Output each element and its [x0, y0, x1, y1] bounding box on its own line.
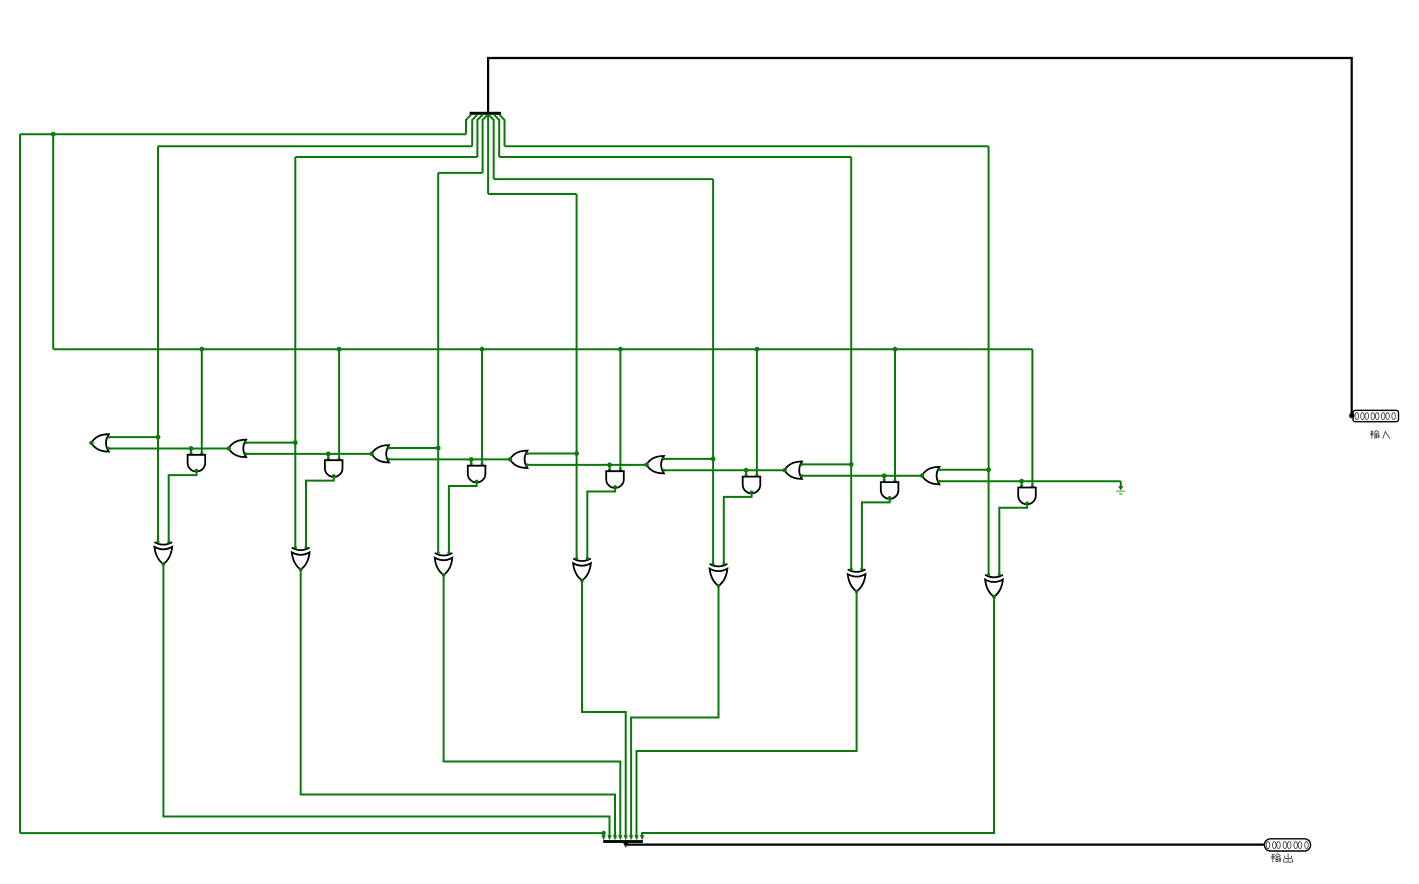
and-gate AND1 (facing down): [188, 455, 206, 473]
wire: XOR6 output down to splitter SP2 leg 6: [637, 591, 857, 835]
wire: OR6 top input to node at x=851: [802, 462, 854, 467]
wire: OR6 bottom input chain (from OR7 output): [802, 475, 922, 477]
wire net bit4 vertical x=577 down to XOR4: [576, 194, 578, 559]
or-gate OR6 (facing left): [782, 462, 803, 479]
wire: XOR4 output down to splitter SP2 leg 4: [582, 581, 626, 836]
or-gate OR4 (facing left): [508, 451, 529, 468]
svg-text:2: 2: [616, 836, 618, 840]
svg-text:5: 5: [632, 836, 634, 840]
wire: OR7 bottom input chain (from ground): [939, 480, 1121, 482]
node J: AND7 left input tap: [1019, 479, 1024, 487]
wire: OR4 top input to node at x=577: [527, 451, 579, 456]
or-gate OR7 (facing left): [920, 467, 941, 484]
wire net bit4: splitter SP1 leg 4: [488, 114, 576, 194]
wire net bit3: splitter SP1 leg 3: [438, 114, 488, 172]
wire net bit2: splitter SP1 leg 2: [295, 114, 483, 157]
wire: OR1 top input to node at x=158: [109, 435, 161, 440]
wire: rail drop to AND5 right input: [755, 347, 760, 477]
wire: OR5 top input to node at x=713: [664, 457, 716, 462]
or-gate OR5 (facing left): [644, 456, 665, 473]
wire: OR5 bottom input chain (from OR6 output): [664, 469, 785, 471]
and-gate AND7 (facing down): [1018, 488, 1036, 506]
or-gate OR3 (facing left): [369, 445, 390, 462]
label 输入 (input): [1371, 430, 1390, 438]
wire: OR7 top input to node at x=989: [939, 467, 991, 472]
and-gate AND3 (facing down): [468, 466, 486, 484]
wire: OR4 bottom input chain (from OR5 output): [527, 464, 646, 466]
wire: rail drop to AND4 right input: [618, 347, 623, 471]
wire net bit2 vertical x=295 down to XOR2: [294, 157, 296, 548]
wire: rail drop to AND3 right input: [480, 347, 485, 466]
svg-text:7: 7: [643, 836, 645, 840]
wire: XOR7 output down to splitter SP2 leg 7: [642, 597, 994, 836]
svg-text:6: 6: [637, 836, 639, 840]
wire net bit7 vertical x=989 down to XOR7: [988, 146, 990, 575]
svg-text:4: 4: [626, 836, 628, 840]
xor-gate XOR1 (facing down): [154, 540, 172, 566]
wire net bit3 vertical x=438 down to XOR3: [437, 173, 439, 554]
wire: AND1 output to XOR1 right input: [169, 471, 197, 543]
svg-text:1: 1: [610, 836, 612, 840]
wire net bit5 vertical x=713 down to XOR5: [712, 179, 714, 564]
wire: rail drop to AND6 right input: [893, 347, 898, 482]
wire: XOR1 output down to splitter SP2 leg 1: [163, 564, 609, 836]
xor-gate XOR6 (facing down): [848, 568, 866, 594]
wire net bit0: splitter SP1 leg 0: [20, 114, 471, 134]
wire net bit6 vertical x=851 down to XOR6: [850, 157, 852, 570]
wire: OR2 bottom input chain (from OR3 output): [246, 453, 372, 455]
splitter SP2 (8x1 fan-in) bar and leg arrowheads: [601, 835, 644, 843]
wire: AND5 output to XOR5 right input: [724, 492, 752, 564]
node J: AND3 left input tap: [469, 457, 474, 466]
wire: AND3 output to XOR3 right input: [449, 481, 477, 553]
wire net bit1: splitter SP1 leg 1: [158, 114, 478, 146]
wire net bit7: splitter SP1 leg 7: [499, 114, 988, 146]
wire: AND4 output to XOR4 right input: [587, 487, 615, 559]
xor-gate XOR7 (facing down): [985, 573, 1003, 599]
wire: AND2 output to XOR2 right input: [306, 476, 334, 548]
wire net bit6: splitter SP1 leg 6: [494, 114, 851, 157]
node J0 on bit0 wire at (53,134): [51, 132, 56, 137]
node J: AND2 left input tap: [326, 452, 331, 461]
wire black: splitter SP2 to output pin: [626, 843, 1265, 845]
wire: OR3 bottom input chain (from OR4 output): [389, 458, 510, 460]
wire common rail: (53,134) down to y=349 and across: [53, 134, 1032, 486]
label 输出 (output): [1272, 853, 1293, 862]
wire net bit0: left rail x=20 down to bottom: [20, 134, 606, 836]
wire net bit1 vertical x=158 down to XOR1: [157, 146, 159, 542]
node: AND7 right input: [1031, 484, 1034, 487]
splitter SP2 black stub arrow: [623, 843, 629, 848]
ground / constant-0 symbol: [1116, 481, 1125, 494]
wire: rail drop to AND2 right input: [337, 347, 342, 460]
wire: OR3 top input to node at x=438: [389, 446, 441, 451]
or-gate OR2 (facing left): [227, 440, 248, 457]
input pin (8-bit) 输入: [1349, 410, 1398, 421]
and-gate AND6 (facing down): [881, 482, 899, 500]
wire: rail drop to AND1 right input: [199, 347, 204, 455]
output pin (8-bit) 输出: [1264, 839, 1310, 851]
wire: OR1 bottom input chain (from OR2 output): [109, 448, 229, 450]
xor-gate XOR5 (facing down): [710, 562, 728, 588]
wire: OR2 top input to node at x=295: [246, 440, 298, 445]
wire: AND6 output to XOR6 right input: [862, 498, 890, 570]
splitter SP2 tiny bit labels: [604, 836, 645, 840]
wire: AND7 output to XOR7 right input: [999, 503, 1027, 575]
wire black: input pin up/left to splitter: [487, 58, 1353, 416]
and-gate AND4 (facing down): [606, 471, 624, 489]
or-gate OR1 (facing left): [89, 434, 110, 451]
xor-gate XOR4 (facing down): [573, 557, 591, 583]
node J: AND1 left input tap: [189, 446, 194, 455]
xor-gate XOR3 (facing down): [435, 551, 453, 577]
svg-text:3: 3: [621, 836, 623, 840]
node J: AND5 left input tap: [744, 468, 749, 477]
wire net bit5: splitter SP1 leg 5: [488, 114, 713, 179]
xor-gate XOR2 (facing down): [292, 546, 310, 572]
svg-text:0: 0: [604, 836, 606, 840]
wire: XOR5 output down to splitter SP2 leg 5: [631, 586, 718, 836]
and-gate AND5 (facing down): [743, 477, 761, 495]
wire: XOR3 output down to splitter SP2 leg 3: [444, 575, 621, 836]
splitter SP1 (1x8 fan-out) bar: [470, 112, 501, 115]
wire: XOR2 output down to splitter SP2 leg 2: [301, 570, 615, 836]
and-gate AND2 (facing down): [325, 460, 343, 478]
node J: AND4 left input tap: [607, 463, 612, 472]
node J: AND6 left input tap: [882, 473, 887, 482]
